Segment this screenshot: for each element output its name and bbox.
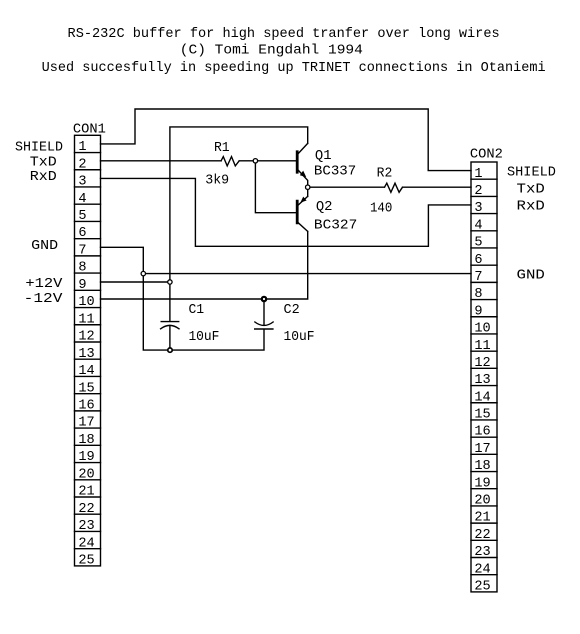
svg-text:10uF: 10uF [284, 330, 315, 345]
svg-text:4: 4 [474, 218, 482, 233]
svg-text:17: 17 [78, 416, 94, 431]
svg-text:4: 4 [78, 192, 86, 207]
svg-text:5: 5 [474, 236, 482, 251]
svg-text:5: 5 [78, 209, 86, 224]
svg-text:SHIELD: SHIELD [507, 165, 556, 180]
svg-text:Q2: Q2 [316, 200, 333, 215]
svg-text:RS-232C buffer for high speed: RS-232C buffer for high speed tranfer ov… [68, 27, 500, 42]
svg-text:22: 22 [474, 528, 490, 543]
svg-text:23: 23 [474, 545, 490, 560]
svg-text:6: 6 [78, 226, 86, 241]
svg-text:20: 20 [78, 467, 94, 482]
svg-text:24: 24 [78, 536, 94, 551]
svg-text:+12V: +12V [25, 277, 63, 292]
svg-text:TxD: TxD [30, 155, 57, 170]
svg-text:RxD: RxD [30, 170, 57, 185]
svg-text:BC337: BC337 [314, 164, 356, 179]
svg-text:18: 18 [474, 459, 490, 474]
svg-text:9: 9 [78, 278, 86, 293]
svg-text:3: 3 [474, 201, 482, 216]
svg-text:8: 8 [474, 287, 482, 302]
svg-text:GND: GND [31, 239, 58, 254]
svg-text:19: 19 [474, 476, 490, 491]
svg-text:3k9: 3k9 [205, 173, 229, 188]
svg-text:Used succesfully in speeding u: Used succesfully in speeding up TRINET c… [42, 61, 546, 76]
svg-text:14: 14 [474, 390, 490, 405]
svg-text:25: 25 [78, 553, 94, 568]
svg-text:13: 13 [78, 347, 94, 362]
svg-text:14: 14 [78, 364, 94, 379]
svg-text:RxD: RxD [517, 200, 545, 215]
svg-text:(C) Tomi Engdahl 1994: (C) Tomi Engdahl 1994 [180, 44, 363, 59]
svg-text:22: 22 [78, 502, 94, 517]
svg-text:SHIELD: SHIELD [15, 141, 63, 156]
svg-text:25: 25 [474, 580, 490, 595]
svg-text:12: 12 [78, 330, 94, 345]
svg-text:7: 7 [474, 270, 482, 285]
svg-text:R2: R2 [377, 166, 393, 181]
svg-text:12: 12 [474, 356, 490, 371]
svg-text:-12V: -12V [24, 292, 64, 307]
svg-text:BC327: BC327 [314, 219, 357, 234]
svg-text:18: 18 [78, 433, 94, 448]
svg-text:24: 24 [474, 562, 490, 577]
svg-text:16: 16 [474, 425, 490, 440]
svg-text:6: 6 [474, 253, 482, 268]
svg-text:Q1: Q1 [315, 149, 332, 164]
svg-text:10uF: 10uF [188, 330, 219, 345]
svg-text:11: 11 [474, 339, 490, 354]
svg-text:23: 23 [78, 519, 94, 534]
svg-text:R1: R1 [214, 141, 230, 156]
svg-text:11: 11 [78, 312, 94, 327]
svg-text:1: 1 [78, 140, 86, 155]
svg-text:C1: C1 [188, 303, 204, 318]
svg-text:8: 8 [78, 261, 86, 276]
svg-text:21: 21 [78, 485, 94, 500]
svg-text:CON1: CON1 [73, 123, 106, 138]
svg-text:9: 9 [474, 304, 482, 319]
svg-text:2: 2 [474, 184, 482, 199]
svg-text:140: 140 [370, 201, 392, 216]
svg-text:1: 1 [474, 167, 482, 182]
svg-text:20: 20 [474, 494, 490, 509]
svg-text:2: 2 [78, 157, 86, 172]
svg-text:10: 10 [78, 295, 94, 310]
svg-text:CON2: CON2 [470, 147, 503, 162]
svg-text:13: 13 [474, 373, 490, 388]
svg-text:TxD: TxD [517, 182, 545, 197]
svg-text:15: 15 [78, 381, 94, 396]
svg-text:21: 21 [474, 511, 490, 526]
svg-text:C2: C2 [284, 303, 300, 318]
svg-text:7: 7 [78, 243, 86, 258]
svg-text:16: 16 [78, 398, 94, 413]
svg-text:17: 17 [474, 442, 490, 457]
svg-text:GND: GND [517, 269, 545, 284]
svg-text:15: 15 [474, 408, 490, 423]
svg-text:19: 19 [78, 450, 94, 465]
svg-text:3: 3 [78, 175, 86, 190]
svg-text:10: 10 [474, 322, 490, 337]
